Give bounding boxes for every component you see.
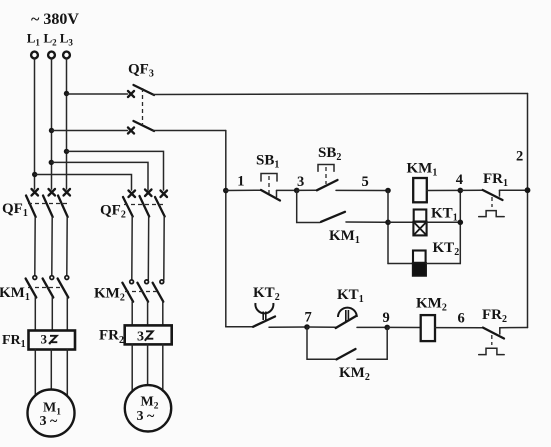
wire KM2 coil to FR2 (node 6): [435, 327, 483, 329]
terminal L1: [31, 52, 38, 59]
svg-text:6: 6: [458, 311, 465, 327]
wire node1 to SB1: [226, 189, 261, 191]
svg-text:~ 380V: ~ 380V: [31, 11, 79, 28]
wire QF1 pole1 down: [34, 217, 36, 276]
motor M1: [28, 390, 75, 437]
breaker QF2 pole3: [155, 191, 167, 217]
thermal relay FR2 heater box: [125, 325, 172, 344]
KM1 linkage dashed: [28, 287, 62, 289]
wire KM2 contact1 down: [131, 302, 133, 326]
junction L2-QF3: [49, 128, 54, 133]
breaker QF3 pole2: [128, 121, 154, 134]
contactor KM1 main contact 1: [26, 276, 37, 298]
wire FR1 out3 to motor: [66, 350, 68, 397]
wire L3 branch to QF2 pole3: [67, 151, 164, 190]
wire KM2 aux branch from node7 down: [307, 327, 336, 359]
contact KM1 auxiliary (NO self-hold): [321, 212, 388, 223]
wire KM1 contact2 down: [51, 298, 53, 331]
wire FR1 out2 to motor: [50, 350, 52, 390]
wire KM2 aux to node9: [386, 327, 388, 359]
svg-text:2: 2: [516, 149, 523, 165]
wire SB2 to node5: [336, 189, 388, 191]
breaker QF2 pole2: [140, 190, 152, 217]
svg-text:3: 3: [137, 330, 144, 345]
wire L3 vertical: [66, 59, 68, 189]
wire KM1 coil to node4: [427, 189, 461, 191]
wire left rail corner to KT2 contact: [226, 326, 253, 328]
thermal relay FR1 heater box: [29, 331, 76, 350]
breaker QF1 pole3: [58, 189, 70, 217]
wire node7 to KT1 contact: [307, 326, 336, 328]
svg-text:3: 3: [297, 174, 304, 190]
coil KT2 (delay): [413, 251, 427, 277]
breaker QF1 pole1: [26, 189, 38, 217]
wire KM2 contact2 down: [147, 302, 149, 326]
wire FR1 out1 to motor: [34, 350, 36, 397]
wire KT1 row left: [388, 221, 413, 223]
breaker QF1 pole2: [43, 189, 55, 217]
junction L1 branch: [32, 172, 37, 177]
thermal contact FR1 (NC): [479, 190, 505, 217]
wire right rail: [527, 94, 529, 328]
wire node4 to FR1: [460, 189, 482, 191]
contactor KM2 main contact 1: [122, 280, 133, 302]
wire FR2 out1 to motor: [131, 344, 133, 392]
wire L2 vertical: [51, 59, 53, 189]
wire QF1 pole2 down: [51, 217, 53, 276]
junction L3 branch: [64, 149, 69, 154]
wire L2 to QF3 pole2: [52, 130, 128, 132]
junction L3-QF3: [64, 91, 69, 96]
contactor KM1 main contact 3: [58, 276, 69, 298]
svg-text:3: 3: [41, 332, 48, 347]
svg-text:5: 5: [362, 174, 369, 190]
wire KT1 contact to node9: [357, 326, 387, 328]
svg-text:4: 4: [456, 172, 463, 188]
terminal L2: [48, 52, 55, 59]
KM2 linkage dashed: [125, 291, 159, 293]
wire parallel branch right rail: [459, 190, 461, 263]
node 3: [294, 174, 304, 193]
junction L2 branch: [49, 160, 54, 165]
node 4: [456, 172, 463, 193]
wire QF2 pole2 down: [147, 217, 149, 281]
wire KT1 row right: [427, 221, 461, 223]
thermal contact FR2 (NC): [479, 328, 504, 355]
svg-text:3 ~: 3 ~: [137, 409, 156, 424]
wire KT2 row right: [426, 263, 460, 265]
node 7: [304, 309, 312, 330]
contactor KM1 main contact 2: [43, 276, 54, 298]
wire FR2 out2 to motor: [147, 344, 149, 385]
contactor KM2 main contact 3: [153, 280, 164, 302]
wire left rail: [225, 131, 227, 327]
node 1: [223, 174, 245, 194]
wire KT2 row left: [388, 263, 413, 265]
pushbutton SB1 (NC): [261, 174, 280, 201]
svg-text:3 ~: 3 ~: [40, 414, 59, 429]
wire node3 to SB2: [297, 189, 317, 191]
wire KM1 contact3 down: [66, 298, 68, 331]
wire KM2 contact3 down: [162, 302, 164, 326]
wire QF3 pole1 to right rail: [153, 94, 528, 95]
wire L1 branch to QF2 pole1: [35, 175, 132, 191]
node 2: [516, 149, 530, 194]
svg-text:7: 7: [305, 309, 312, 325]
terminal L3: [63, 52, 70, 59]
wire L2 branch to QF2 pole2: [51, 162, 148, 190]
time contact KT1 (delayed, cup down): [336, 308, 357, 328]
contact KM2 auxiliary (NO): [337, 349, 388, 359]
QF3 linkage dashed: [142, 88, 144, 124]
wire parallel branch left rail: [387, 191, 389, 264]
junction latch/KT1: [385, 220, 391, 226]
wire QF3 pole2 to left rail: [153, 130, 226, 132]
junction node5: [385, 188, 391, 194]
contactor KM2 main contact 2: [137, 280, 148, 302]
wire node9 to KM2 coil: [387, 326, 420, 328]
wire QF2 pole1 down: [131, 217, 133, 281]
wire SB1 to node3: [277, 189, 297, 191]
wire QF2 pole3 down: [163, 217, 165, 281]
coil KT1 (on-delay): [413, 210, 426, 236]
coil KM1: [413, 178, 427, 202]
motor M2: [125, 385, 171, 431]
QF2 linkage dashed: [124, 204, 166, 206]
pushbutton SB2 (NO): [317, 165, 338, 191]
junction KT1 right: [458, 220, 464, 226]
wire KM1 contact1 down: [34, 298, 36, 331]
svg-text:1: 1: [237, 174, 244, 190]
svg-text:9: 9: [383, 310, 390, 326]
wire FR2 out3 to motor: [162, 344, 164, 391]
wire L1 vertical: [34, 59, 36, 189]
wire L3 to QF3 pole1: [67, 93, 128, 95]
breaker QF3 pole1: [128, 85, 154, 97]
breaker QF2 pole1: [123, 191, 135, 217]
QF1 linkage dashed: [28, 203, 70, 205]
wire KT2 contact to node7: [269, 326, 307, 328]
wire QF1 pole3 down: [66, 217, 68, 276]
coil KM2: [421, 315, 435, 341]
wire FR1 to right rail: [500, 189, 528, 191]
time contact KT2 (delayed, cup up): [253, 303, 275, 327]
node 9: [383, 310, 391, 330]
wire FR2 to right rail: [500, 327, 528, 329]
wire latch branch from node3 down: [297, 190, 320, 222]
